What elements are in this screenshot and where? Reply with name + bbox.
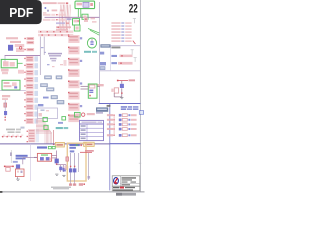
section divider bottom [0,143,110,145]
section tag B [84,142,95,146]
oscillator Y1 [3,61,15,66]
net text P1 [2,95,10,100]
resistor R5 [4,103,7,107]
svg-text:22: 22 [129,2,138,16]
off-page ref 6 [57,100,64,104]
title block text [120,177,139,185]
wire wol3 [23,158,38,165]
net 5VSB wire [80,151,92,153]
chip U4 pins [39,109,50,116]
sheet number 22 [129,2,138,16]
wire hdiv [5,55,40,64]
wire busred [53,130,55,145]
section title MAIN POWER [107,105,111,107]
note text bottom [51,187,71,190]
wire y1 out [17,62,22,64]
label row lav [56,22,69,24]
capacitor C10 [69,168,72,172]
wire wol1 [4,166,14,168]
frame bottom border [0,191,145,193]
wire c6a [81,85,89,87]
no-connect flag B1 [131,50,134,55]
address bus wires [59,5,71,30]
regulator U6 [55,159,59,164]
resistor pack RP1 [15,44,24,52]
wire vbus1 [39,37,41,75]
node A [43,7,57,13]
wire yb2 [74,153,76,181]
inductor FB1 [8,45,13,51]
capacitor cluster CY [1,69,24,74]
title 5VSB [37,146,47,148]
rtc box [73,19,80,25]
net class green2 [44,125,48,129]
ground gq1 [120,98,123,99]
resistor R3 [111,88,118,93]
section border bottom right [110,143,141,145]
table DDR header [80,120,104,124]
net row B1 [111,55,132,58]
wire yb3 [78,153,80,172]
wire c6c [97,86,100,88]
connector J1 pin row 1 [38,31,73,33]
filter FL1 parts [40,154,51,160]
termination array column [68,35,82,122]
title block divider [119,176,121,186]
title block frame [112,176,140,186]
resistor R7 [6,167,10,171]
node q1j [121,92,123,94]
section tag A [55,142,64,147]
title 5VSB_DUAL [69,144,82,152]
net label row A [43,2,69,4]
capacitor C6 group [88,84,97,98]
memory bus ribbon [36,119,52,133]
wire clk1 [77,9,79,18]
resistor R9 [66,157,69,161]
net row B2 [111,62,132,65]
diode chain D2-D6 [2,135,24,138]
resistor R2 [91,18,97,23]
pin text small [21,127,25,129]
wire wol2 [17,177,19,179]
net class tag1 [48,146,51,148]
wire r5 [4,100,6,117]
wire yb4 [88,153,91,180]
wire yb1 [70,153,72,181]
no-connect flag [133,19,136,24]
label row pk2 [56,29,68,31]
ground g5b [62,175,65,176]
off-page ref 2 [56,76,62,79]
label row pk1 [56,26,71,28]
company logo [114,178,119,184]
ic U5 box [15,169,24,177]
diode D1 [4,111,7,115]
transistor Q2 [16,164,20,168]
net class green3 [62,117,66,120]
node B [60,10,64,12]
net text L2 [10,41,34,44]
pll filter box [2,80,20,90]
capacitor C5 group [87,38,96,48]
polarity mark [82,112,104,116]
ground gw1 [16,179,19,180]
table DDR body [80,124,104,141]
net class green1 [43,117,47,121]
no-connect flag B2 [134,58,137,62]
clock generator box [75,1,95,9]
crystal X1 [82,14,88,19]
filter FL1 box [37,153,51,161]
wire c6b [81,88,89,90]
bus label row 2 [43,19,65,21]
net class tag2 [52,146,55,148]
wire vsb2 [52,151,57,164]
wire vsb1 [34,156,37,158]
net label teal [84,51,97,53]
off-page ref 3 [41,84,48,87]
section title text [111,47,120,49]
net VCC label [129,79,135,81]
connector J1 pin row 2 [38,34,73,36]
revision strip [116,193,136,196]
net text L1 [6,37,34,40]
transistor Q1 [120,81,124,88]
off-page ref 1 [45,76,52,79]
wire power rail [113,114,115,136]
ref text a [43,97,49,99]
ref label text2 [100,62,106,65]
bus label row 1 [43,14,65,16]
node p1 [5,117,6,121]
block header PWR [96,107,108,111]
table note [75,112,81,117]
memory bus drop wires [45,126,52,144]
ground g5a [55,174,58,175]
chip U3 pins [41,47,67,67]
section border left [109,104,111,191]
resistor row r3 [24,48,34,51]
wire vbus2 [43,37,45,55]
off-page ref 4 [47,88,55,91]
off-page ref 5 [51,96,58,99]
block header NB [100,44,110,47]
capacitor C1 [84,18,88,22]
section border top [99,103,141,105]
wire q1e [121,88,123,97]
net label DDR [56,127,68,129]
ground cluster [69,181,85,186]
vertical section divider [99,2,101,104]
wire redtick [133,41,136,44]
net label list [111,22,131,42]
chip U3 label [48,53,62,62]
page background [0,0,149,198]
sub divider [30,144,32,181]
net 5VSB label [85,150,94,152]
wire clk2 [80,9,82,18]
oscillator Y1 box [1,59,17,67]
legend box [139,111,143,115]
section box NB [100,46,141,71]
ref text c [58,122,63,124]
svg-text:PDF: PDF [9,5,33,20]
oscillator box [74,25,80,31]
capacitor C8 [59,167,62,171]
resistor R8 [64,166,68,170]
node vsb [56,164,58,166]
PDF badge [0,0,42,24]
connector stub [10,150,18,163]
note text [6,129,21,133]
wire gnet1 [88,29,99,34]
net VCC wire [117,80,128,82]
clock generator U1 [77,2,93,7]
bus divider line [45,16,100,18]
power net rows [107,114,137,137]
capacitor C9 [63,168,66,172]
ref label top [67,18,72,20]
highlight box 5VSB_DUAL [67,143,86,181]
wire q1b [114,93,122,97]
chip U4 outline [38,108,58,119]
socket U2 pin field [24,56,38,124]
node green [76,144,78,146]
frame right border [139,0,141,192]
wire hnet [0,90,26,92]
title block row 2 [112,186,140,191]
net text mid [98,84,104,86]
ref label text1 [100,52,104,55]
ref label box [100,67,105,70]
socket U2 lower block [27,129,39,142]
ref text b [38,104,43,106]
node yb1 [70,166,75,167]
capacitor C11 [73,168,76,172]
power list header [121,106,139,110]
title WAKE ON LAN [16,155,28,160]
wire vsb3 [57,165,66,172]
tick mark right [139,162,141,165]
wire gnet2 [90,30,99,35]
